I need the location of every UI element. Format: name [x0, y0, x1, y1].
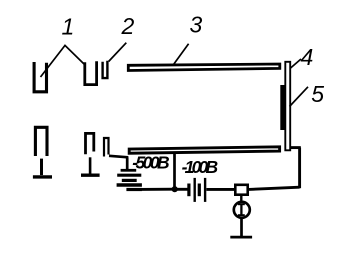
wire riser to anode 4: [290, 146, 301, 149]
ground bar: [230, 236, 252, 239]
galvanometer circle: [234, 202, 250, 218]
wire junction to battery B2: [176, 188, 188, 191]
element 5 (solid vertical bar): [280, 85, 284, 130]
electrode 2 (small upper cup): [103, 61, 108, 78]
wire battery B2 to meter box: [206, 188, 234, 191]
svg-text:-500В: -500В: [132, 153, 169, 173]
right riser wire: [298, 148, 301, 189]
battery B1 plate 3: [122, 179, 137, 182]
support stem 1a: [40, 159, 43, 176]
electrode cup 1a (upper left U): [34, 62, 46, 92]
anode plate 4 (vertical hollow bar): [285, 62, 290, 151]
base 1b: [81, 173, 100, 176]
meter box: [235, 185, 247, 195]
pointer from label 3: [174, 44, 189, 64]
bottom electrode 1b (inverted U): [86, 133, 94, 154]
pointer from label 4: [290, 59, 301, 69]
wire meter box to galvanometer: [240, 196, 242, 202]
svg-text:3: 3: [190, 12, 203, 38]
svg-text:2: 2: [121, 13, 135, 39]
top deflection plate 3: [128, 64, 279, 71]
pointer from label 5: [290, 87, 309, 107]
electrode cup 1b (second upper U): [85, 61, 97, 84]
wire bottom plate to junction: [173, 154, 176, 190]
wire meter box to right riser: [249, 187, 300, 189]
wire galvanometer to ground: [240, 218, 243, 236]
bottom electrode 2 (narrow inverted U): [104, 138, 109, 157]
base 1a: [33, 175, 52, 178]
support stem 1b: [89, 157, 92, 174]
battery B1 plate 5: [126, 188, 141, 191]
galvanometer I symbol: [238, 204, 245, 217]
wire electrode 2 to battery B1: [109, 156, 128, 158]
junction dot: [172, 186, 178, 192]
svg-text:-100В: -100В: [182, 157, 219, 177]
battery B1 plate 2: [117, 174, 141, 177]
pointer from label 1: [41, 45, 85, 77]
battery B1 plate 1: [121, 169, 137, 172]
battery B1 plate 4: [117, 183, 142, 186]
svg-text:5: 5: [311, 81, 324, 107]
pointer from label 2: [109, 43, 127, 62]
svg-text:4: 4: [301, 44, 314, 70]
wire battery B1 to junction: [140, 188, 174, 191]
bottom electrode 1a (inverted U): [35, 127, 47, 156]
bottom plate (lower plate of 3): [129, 147, 279, 153]
svg-text:1: 1: [62, 13, 75, 39]
battery B2 cell plates: [187, 184, 190, 197]
battery B1 stem: [126, 157, 129, 169]
